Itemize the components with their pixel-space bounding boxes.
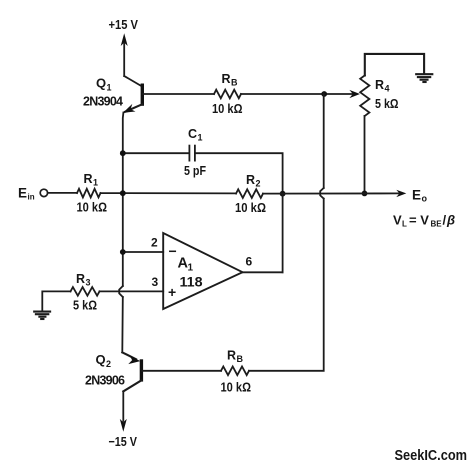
label Eo <box>412 188 428 204</box>
svg-text:2: 2 <box>256 179 261 189</box>
label RB top <box>222 72 239 88</box>
label 2N3904 <box>83 95 123 109</box>
watermark SeekIC.com <box>395 447 468 464</box>
pin label 3 <box>152 275 159 289</box>
node pin2/node column <box>120 249 126 255</box>
capacitor C1 <box>189 146 195 161</box>
svg-text:B: B <box>237 354 244 364</box>
svg-text:5 kΩ: 5 kΩ <box>375 97 399 111</box>
wire RB top to junction and R4 wiper <box>241 90 360 98</box>
svg-text:/: / <box>443 213 447 228</box>
svg-text:R: R <box>246 173 255 187</box>
label A1 <box>178 256 194 274</box>
svg-text:R: R <box>84 172 93 186</box>
label 2N3906 <box>85 374 125 388</box>
svg-text:R: R <box>227 349 236 363</box>
label Ein <box>18 186 35 202</box>
wire R1 to R2 <box>101 192 237 194</box>
svg-text:1: 1 <box>188 263 194 274</box>
+15V supply label <box>109 17 139 32</box>
wire Q1 collector to +15V <box>124 76 141 86</box>
node feedback/output rail <box>280 191 286 197</box>
svg-text:+15 V: +15 V <box>109 17 139 32</box>
resistor RB bottom <box>221 367 249 376</box>
wire crossover hop at output rail <box>320 188 324 199</box>
svg-text:= V: = V <box>409 213 429 228</box>
label minus input <box>169 243 177 259</box>
label plus input <box>168 284 176 300</box>
svg-text:E: E <box>412 188 421 203</box>
label R3 <box>76 272 91 288</box>
wire Q1 emitter down to node column <box>122 113 125 287</box>
-15V supply label <box>109 434 138 449</box>
node input/feedback <box>120 190 126 196</box>
+15V supply arrow <box>121 33 128 76</box>
transistor Q2 <box>123 359 141 391</box>
label 10 kOhm RB bottom <box>221 381 252 395</box>
wire feedback column to op-amp output <box>282 194 284 273</box>
svg-text:−: − <box>169 243 177 259</box>
svg-text:Q: Q <box>96 352 106 367</box>
label 10 kOhm R2 <box>235 201 266 215</box>
label 5 kOhm R4 <box>375 97 399 111</box>
svg-text:B: B <box>231 78 238 88</box>
wire Q2 collector to -15V <box>120 391 127 431</box>
svg-text:10 kΩ: 10 kΩ <box>77 201 108 215</box>
svg-text:10 kΩ: 10 kΩ <box>221 381 252 395</box>
svg-text:6: 6 <box>246 255 253 269</box>
svg-text:1: 1 <box>93 178 98 188</box>
wire output rail to Eo arrow <box>263 190 406 197</box>
svg-text:+: + <box>168 284 176 300</box>
svg-text:C: C <box>188 127 197 141</box>
svg-text:3: 3 <box>86 278 91 288</box>
svg-text:BE: BE <box>431 220 443 229</box>
svg-text:3: 3 <box>152 275 159 289</box>
wire input to R1 <box>48 192 77 194</box>
svg-text:5 kΩ: 5 kΩ <box>73 299 97 313</box>
label VL = VBE/beta <box>393 213 455 229</box>
svg-text:4: 4 <box>385 84 390 94</box>
label R4 <box>375 78 390 94</box>
wire op-amp output pin 6 <box>243 271 283 273</box>
wire node column to Q2 emitter <box>122 352 140 364</box>
svg-text:−15 V: −15 V <box>109 434 138 449</box>
label C1 <box>188 127 203 143</box>
svg-text:5 pF: 5 pF <box>184 164 206 178</box>
pin label 2 <box>151 236 158 250</box>
label Q1 <box>96 76 112 93</box>
svg-text:2N3904: 2N3904 <box>83 95 123 109</box>
resistor R3 <box>71 287 100 296</box>
svg-text:E: E <box>18 186 27 201</box>
svg-text:1: 1 <box>198 133 203 143</box>
label 5 kOhm R3 <box>73 299 97 313</box>
ground left <box>34 312 50 319</box>
wire node column lower <box>121 297 124 352</box>
resistor R2 <box>236 189 263 198</box>
wire R4 top to ground corner <box>365 54 424 76</box>
wire crossover hop at pin3 line <box>119 286 123 297</box>
svg-text:L: L <box>402 220 407 229</box>
transistor Q1 <box>123 84 143 113</box>
svg-text:R: R <box>76 272 85 286</box>
input terminal circle <box>40 189 47 196</box>
svg-text:2N3906: 2N3906 <box>85 374 125 388</box>
svg-text:SeekIC.com: SeekIC.com <box>395 447 468 464</box>
wire junction down to RB bottom (upper part) <box>323 94 325 188</box>
svg-text:o: o <box>422 194 428 204</box>
node R4/output rail <box>362 191 368 197</box>
wire node to C1 <box>123 152 188 154</box>
wire R3 to pin 3 <box>100 290 164 292</box>
label 10 kOhm R1 <box>77 201 108 215</box>
svg-text:Q: Q <box>96 76 106 91</box>
resistor RB top <box>214 90 241 99</box>
wire R4 bottom to output rail <box>364 116 366 193</box>
pin label 6 <box>246 255 253 269</box>
svg-text:R: R <box>375 78 384 92</box>
wire inverting input pin 2 <box>123 251 163 253</box>
op-amp A1 <box>163 233 242 309</box>
label 118 <box>180 274 203 290</box>
svg-text:R: R <box>222 72 231 86</box>
svg-text:2: 2 <box>151 236 158 250</box>
svg-text:in: in <box>28 193 35 202</box>
wire Q2 base <box>142 370 221 372</box>
label R1 <box>84 172 99 188</box>
wire Q1 base <box>143 93 214 95</box>
svg-text:V: V <box>393 213 402 228</box>
wire junction down to RB bottom (lower part) <box>249 199 324 371</box>
ground top right <box>416 74 432 82</box>
resistor R4 (pot) <box>360 75 369 116</box>
label 10 kOhm RB top <box>212 102 243 116</box>
label RB bottom <box>227 349 244 365</box>
resistor R1 <box>77 189 101 198</box>
label Q2 <box>96 352 112 369</box>
label R2 <box>246 173 261 189</box>
svg-text:β: β <box>446 213 455 228</box>
svg-text:118: 118 <box>180 274 203 290</box>
svg-text:10 kΩ: 10 kΩ <box>212 102 243 116</box>
node junction RB/wiper <box>321 91 327 97</box>
svg-text:10 kΩ: 10 kΩ <box>235 201 266 215</box>
wire ground to R3 <box>42 291 70 311</box>
node C1 tap <box>120 150 126 156</box>
label 5 pF <box>184 164 206 178</box>
svg-text:1: 1 <box>107 83 112 93</box>
svg-text:2: 2 <box>106 359 111 369</box>
wire C1 to feedback column <box>196 153 283 191</box>
